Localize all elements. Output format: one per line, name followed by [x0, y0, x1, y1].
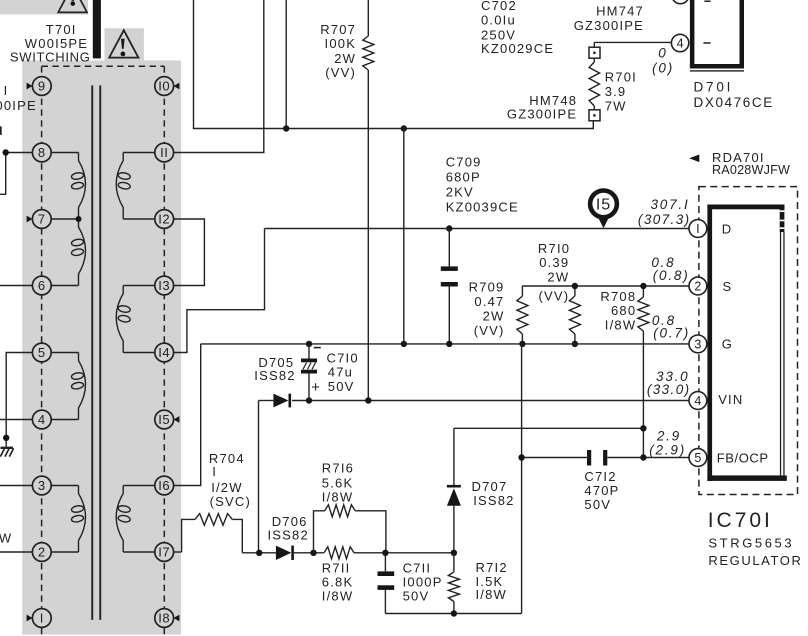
svg-text:R709: R709	[469, 280, 505, 295]
svg-text:3: 3	[38, 478, 46, 493]
node junctions bottom net	[310, 550, 316, 556]
IC701 dashed outline	[699, 187, 798, 495]
node junction D706 anode	[256, 550, 262, 556]
svg-text:KZ0029CE: KZ0029CE	[481, 41, 554, 56]
transformer pin 11	[155, 143, 174, 162]
wire pin14 to node D (pin1 net)	[174, 229, 265, 353]
pad HM748	[589, 110, 600, 121]
wire pin7 to winding	[51, 218, 78, 220]
svg-text:DX0476CE: DX0476CE	[694, 95, 774, 110]
resistor R709	[517, 286, 528, 344]
svg-text:I00K: I00K	[325, 36, 357, 51]
wire net D (IC pin 1)	[265, 228, 690, 230]
transformer pin 7	[32, 210, 51, 229]
label D701	[694, 79, 774, 110]
svg-text:6.8K: 6.8K	[322, 575, 354, 590]
svg-text:I5: I5	[596, 196, 611, 213]
node junction R712 bottom	[451, 610, 457, 616]
svg-text:ISS82: ISS82	[268, 527, 309, 542]
svg-text:D707: D707	[472, 479, 508, 494]
svg-text:(SVC): (SVC)	[210, 494, 251, 509]
resistor R710	[569, 283, 580, 347]
winding 16-17	[116, 486, 155, 553]
svg-text:(2.9): (2.9)	[649, 443, 686, 458]
IC701 pin 3	[689, 335, 707, 353]
winding 3-2	[51, 486, 85, 553]
svg-text:2KV: 2KV	[446, 185, 474, 200]
resistor R716 (bridge)	[314, 505, 386, 553]
svg-text:4: 4	[38, 412, 46, 427]
svg-text:I2: I2	[158, 212, 170, 227]
svg-text:R708: R708	[600, 289, 636, 304]
svg-text:307.I: 307.I	[650, 197, 689, 212]
shaded region top-left	[0, 0, 88, 15]
svg-text:G: G	[722, 337, 733, 352]
pad HM747	[589, 47, 600, 58]
transformer pin 1	[32, 609, 51, 628]
warning triangle symbol	[109, 30, 138, 57]
svg-text:C7I2: C7I2	[584, 469, 616, 484]
svg-text:0: 0	[658, 45, 667, 60]
svg-text:GZ300IPE: GZ300IPE	[0, 98, 37, 113]
svg-text:0.47: 0.47	[474, 294, 504, 309]
capacitor C709	[441, 229, 458, 344]
node balloon 15	[590, 191, 617, 229]
label HM748	[507, 93, 577, 122]
svg-text:I5: I5	[158, 412, 170, 427]
winding 7-6	[51, 219, 85, 286]
svg-text:I000P: I000P	[403, 575, 443, 590]
svg-text:C7I0: C7I0	[327, 350, 359, 365]
svg-text:(0.7): (0.7)	[653, 325, 690, 340]
label D706	[268, 514, 309, 542]
svg-text:3.9: 3.9	[605, 84, 627, 99]
svg-text:(307.3): (307.3)	[638, 212, 691, 227]
svg-text:50V: 50V	[584, 497, 611, 512]
label D707	[472, 479, 515, 508]
C710 minus polarity mark	[314, 347, 321, 349]
partial component mark at left edge	[0, 126, 2, 134]
winding 13-14	[116, 286, 155, 353]
svg-text:I: I	[696, 222, 699, 236]
transformer core lines	[91, 85, 101, 620]
node junctions x643	[640, 425, 646, 431]
label R704	[209, 451, 251, 509]
winding 8-7	[51, 153, 85, 220]
node junction FB tap	[518, 454, 524, 460]
wire vertical x521 (G net to bottom return)	[521, 344, 524, 614]
capacitor C710 (electrolytic)	[301, 344, 317, 401]
wire R708 to FB node	[454, 428, 644, 457]
svg-text:RA028WJFW: RA028WJFW	[712, 163, 790, 177]
value pin4 voltages	[647, 369, 691, 397]
svg-text:STRG5653: STRG5653	[708, 535, 794, 550]
svg-text:I/8W: I/8W	[476, 587, 508, 602]
value D701 pin4 voltages	[652, 45, 674, 75]
svg-text:KZ0039CE: KZ0039CE	[446, 200, 519, 215]
resistor R704	[182, 514, 243, 553]
resistor R708	[638, 283, 649, 429]
shaded region transformer T701 body	[22, 61, 181, 635]
svg-text:FB/OCP: FB/OCP	[717, 450, 769, 465]
wire net VIN (IC pin 4)	[259, 400, 690, 402]
wire pin17 to R704	[174, 551, 182, 553]
node junctions on G net	[306, 341, 312, 347]
transformer pin 9	[32, 77, 51, 96]
transformer pin 2	[32, 543, 51, 562]
svg-text:8: 8	[38, 145, 46, 160]
svg-text:GZ300IPE: GZ300IPE	[507, 107, 577, 122]
capacitor C712	[587, 450, 607, 466]
label C709	[446, 155, 519, 215]
svg-text:I/2W: I/2W	[211, 480, 243, 495]
node junctions on VIN net	[306, 397, 312, 403]
wire jumper pin12-pin13	[174, 219, 205, 286]
node junction x404/y128	[401, 125, 407, 131]
svg-text:680P: 680P	[446, 170, 481, 185]
svg-text:SWITCHING: SWITCHING	[10, 49, 91, 64]
value pin3 voltages	[652, 313, 690, 340]
svg-text:D: D	[722, 221, 733, 236]
svg-text:REGULATOR: REGULATOR	[708, 553, 802, 568]
svg-text:2W: 2W	[483, 309, 505, 324]
svg-text:C709: C709	[446, 155, 482, 170]
svg-text:I4: I4	[158, 345, 170, 360]
svg-text:(VV): (VV)	[474, 323, 505, 338]
svg-text:(33.0): (33.0)	[647, 382, 691, 397]
node junction winding tap pin7	[76, 216, 82, 222]
label R716	[322, 460, 354, 504]
svg-text:ISS82: ISS82	[254, 368, 295, 383]
capacitor C711	[378, 553, 395, 614]
transformer pin 4	[32, 410, 51, 429]
wire net S (IC pin 2)	[522, 285, 689, 287]
label R711	[322, 561, 354, 604]
pin 9 marker	[27, 83, 33, 90]
D701 component box	[690, 0, 744, 72]
svg-text:VIN: VIN	[718, 392, 743, 407]
wire net FB (IC pin 5)	[521, 457, 689, 459]
svg-text:I/8W: I/8W	[605, 318, 637, 333]
diode D707	[447, 428, 461, 553]
pin 10 marker	[174, 83, 180, 90]
IC701 pin name labels	[717, 221, 769, 465]
svg-text:(0): (0)	[652, 61, 674, 76]
label C710	[311, 350, 359, 396]
pin 18 marker	[174, 615, 180, 622]
svg-text:3: 3	[694, 337, 701, 351]
svg-text:C7II: C7II	[403, 561, 432, 576]
label C702	[481, 0, 554, 56]
transformer pin 17	[155, 543, 174, 562]
svg-text:IC70I: IC70I	[708, 509, 773, 532]
node C709 top junction	[446, 225, 452, 231]
svg-text:I: I	[212, 464, 217, 479]
svg-text:+: +	[311, 379, 320, 396]
svg-text:I/8W: I/8W	[322, 588, 354, 603]
svg-text:R7I2: R7I2	[476, 560, 508, 575]
value pin5 voltages	[649, 428, 686, 457]
wire pin3 left	[0, 485, 32, 487]
value pin1 voltages	[638, 197, 691, 227]
IC701 pin 2	[689, 277, 707, 295]
wire pin8 left with junction	[0, 149, 32, 194]
transformer pin 14	[155, 343, 174, 362]
transformer pin 16	[155, 476, 174, 495]
svg-text:7W: 7W	[605, 98, 627, 113]
diode D706	[276, 546, 294, 560]
svg-text:2W: 2W	[334, 51, 356, 66]
label R707	[320, 22, 356, 80]
label R708	[600, 289, 636, 333]
wire bottom net segment	[242, 552, 276, 554]
transformer pin 15	[155, 410, 174, 429]
svg-text:(0.8): (0.8)	[653, 268, 690, 283]
wire D705 branch down to D706	[258, 401, 260, 553]
label RDA701	[689, 150, 790, 177]
winding 5-4	[51, 353, 85, 420]
transformer pin 3	[32, 476, 51, 495]
svg-text:I/8W: I/8W	[322, 490, 354, 505]
transformer pin 5	[32, 343, 51, 362]
svg-text:470P: 470P	[584, 483, 619, 498]
value pin2 voltages	[651, 255, 689, 283]
label HM747	[574, 4, 644, 34]
label D705	[254, 355, 295, 383]
transformer pin 10	[155, 77, 174, 96]
wire D701 pin4 to R701	[594, 42, 671, 47]
svg-text:II: II	[160, 145, 168, 160]
resistor R701	[589, 58, 599, 110]
svg-text:(VV): (VV)	[325, 65, 356, 80]
svg-text:I8: I8	[158, 611, 170, 626]
svg-text:50V: 50V	[328, 379, 355, 394]
svg-text:680: 680	[611, 303, 636, 318]
warning triangle (partial, clipped at top)	[58, 0, 87, 12]
D701 pin circle partial top	[672, 0, 689, 4]
svg-text:R7I6: R7I6	[322, 460, 354, 475]
IC701 pin 5	[689, 449, 707, 467]
svg-text:2: 2	[694, 279, 701, 293]
svg-text:2: 2	[38, 545, 46, 560]
label R701	[605, 70, 637, 114]
winding 11-12	[116, 153, 155, 220]
resistor R711	[294, 547, 454, 559]
svg-text:ISS82: ISS82	[473, 493, 514, 508]
wire vertical x404 (y128 to G net)	[403, 129, 405, 344]
wire pin4 left	[0, 419, 32, 421]
label IC701	[708, 509, 803, 568]
transformer dashed outline	[42, 66, 165, 636]
svg-text:R70I: R70I	[605, 70, 637, 85]
svg-text:GZ300IPE: GZ300IPE	[574, 18, 644, 33]
svg-text:6: 6	[38, 278, 46, 293]
wire pin2 left	[0, 551, 32, 553]
svg-text:50V: 50V	[403, 588, 430, 603]
svg-text:R7I0: R7I0	[538, 241, 570, 256]
svg-text:5: 5	[694, 451, 701, 465]
pin 1 marker	[27, 615, 33, 622]
node junction x286/y128	[283, 125, 289, 131]
svg-text:I6: I6	[158, 478, 170, 493]
svg-text:R7II: R7II	[322, 561, 351, 576]
svg-text:7: 7	[38, 212, 46, 227]
transformer pin 12	[155, 210, 174, 229]
label C711	[403, 561, 443, 604]
IC701 pin 4	[689, 392, 707, 410]
svg-text:5.6K: 5.6K	[322, 476, 354, 491]
resistor R712	[448, 553, 459, 614]
wire pin6 left	[0, 285, 32, 287]
pin 15 marker	[174, 416, 180, 423]
resistor R707	[363, 0, 374, 401]
svg-text:I0: I0	[158, 79, 170, 94]
svg-text:0.39: 0.39	[539, 255, 569, 270]
svg-text:5 I: 5 I	[0, 83, 8, 98]
svg-text:2.9: 2.9	[656, 428, 681, 443]
diode D705	[273, 394, 291, 408]
svg-text:I7: I7	[158, 545, 170, 560]
svg-text:HM747: HM747	[596, 4, 644, 19]
shaded region warning box	[105, 28, 144, 61]
wire net G (IC pin 3)	[201, 343, 689, 345]
label C712	[584, 469, 619, 512]
svg-text:I3: I3	[158, 278, 170, 293]
label R710	[538, 241, 570, 304]
svg-text:(VV): (VV)	[538, 289, 569, 304]
transformer pin 18	[155, 609, 174, 628]
svg-text:9: 9	[38, 79, 46, 94]
svg-text:4: 4	[694, 394, 701, 408]
svg-text:C702: C702	[481, 0, 517, 13]
svg-text:47u: 47u	[328, 365, 353, 380]
svg-text:FW: FW	[0, 531, 12, 546]
wire net y128 (R701 return)	[194, 0, 594, 129]
label R712	[476, 560, 508, 602]
D701 pin 4 circle	[671, 34, 688, 51]
svg-text:I: I	[40, 611, 44, 626]
svg-text:R707: R707	[320, 22, 356, 37]
wire bottom return y613.5	[385, 613, 521, 615]
ground	[0, 448, 13, 457]
svg-text:4: 4	[677, 36, 684, 50]
svg-text:2W: 2W	[547, 270, 569, 285]
svg-text:5: 5	[38, 345, 46, 360]
transformer pin 6	[32, 276, 51, 295]
IC701 pin 1	[689, 220, 707, 238]
transformer pin 8	[32, 143, 51, 162]
wire pin5 to ground	[3, 353, 32, 448]
svg-text:S: S	[723, 279, 733, 294]
thick separator bar	[93, 0, 101, 58]
wire pin16 up to G net	[174, 344, 201, 486]
label R709	[469, 280, 505, 339]
label T701	[10, 22, 91, 64]
transformer pin 13	[155, 276, 174, 295]
wire vertical x286	[285, 0, 287, 129]
pin 7 marker	[27, 216, 33, 223]
wire pin11 right up to top	[174, 0, 264, 153]
IC701 body box	[707, 205, 786, 481]
svg-text:D70I: D70I	[694, 79, 734, 94]
svg-text:0.0Iu: 0.0Iu	[481, 13, 516, 28]
